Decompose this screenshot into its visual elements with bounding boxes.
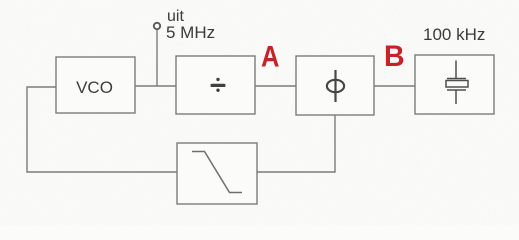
svg-text:B: B: [384, 40, 405, 73]
svg-text:VCO: VCO: [76, 78, 113, 97]
svg-text:5 MHz: 5 MHz: [166, 23, 215, 42]
svg-text:A: A: [261, 39, 279, 72]
svg-text:100 kHz: 100 kHz: [423, 25, 485, 44]
